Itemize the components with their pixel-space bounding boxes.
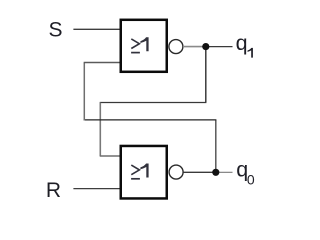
svg-text:S: S [49, 18, 63, 41]
node q0 junction dot [212, 169, 219, 176]
wire net q1 vertical drop from junction [205, 47, 207, 103]
wire S input [73, 28, 121, 30]
op U2 output inverter bubble [169, 165, 183, 179]
op U1 output inverter bubble [169, 40, 183, 54]
wire net q0 vertical rise to upper gate [83, 63, 85, 121]
svg-text:0: 0 [247, 172, 255, 188]
wire U1 bubble to node q1 [183, 46, 206, 48]
wire node q0 to label [216, 171, 233, 173]
svg-text:R: R [46, 179, 61, 202]
svg-text:q: q [236, 31, 248, 55]
wire node q1 to label [206, 46, 233, 48]
wire R input [73, 188, 121, 190]
wire net q1 horizontal run left [100, 102, 207, 104]
gate U2 function label greater-equal chevron [131, 165, 139, 175]
gate U1 function label digit 1 [140, 37, 148, 51]
wire net q0 horizontal run left [84, 119, 217, 121]
wire net q1 stub into U2 input 1 [100, 155, 121, 157]
gate U1 function label bar under chevron [131, 52, 140, 54]
wire U2 bubble to node q0 [183, 171, 215, 173]
label q1 subscript 1 [248, 48, 253, 58]
gate U1 function label greater-equal chevron [131, 39, 139, 49]
wire net q1 vertical drop to lower gate [99, 103, 101, 157]
NOR gate U1 body [121, 20, 167, 72]
wire net q0 vertical rise from junction [215, 120, 217, 172]
wire net q0 stub into U1 input 2 [84, 62, 121, 64]
gate U2 function label digit 1 [140, 164, 148, 178]
node q1 junction dot [202, 43, 209, 50]
NOR gate U2 body [121, 146, 167, 199]
gate U2 function label bar under chevron [131, 178, 140, 180]
